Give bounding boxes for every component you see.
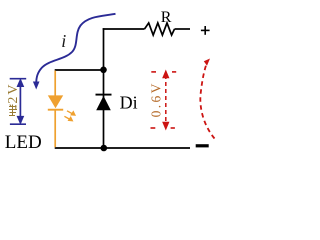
reverse-voltage curved arrow (red dashed) — [200, 59, 214, 139]
label approx 2V (rotated) — [6, 82, 21, 116]
label Di — [120, 93, 138, 113]
wire top horizontal to resistor — [103, 28, 145, 30]
current arrow i (blue S-curve) — [33, 14, 116, 90]
wire main vertical bus — [103, 28, 105, 148]
resistor R — [145, 23, 175, 35]
wire resistor to plus terminal — [175, 28, 191, 30]
label LED — [5, 132, 42, 153]
minus terminal — [196, 144, 209, 147]
plus terminal — [201, 26, 210, 35]
svg-text:Di: Di — [120, 93, 138, 113]
voltage annotation 0.6V (red dashed dimension arrow) — [151, 71, 177, 129]
node junction dot top — [100, 67, 107, 74]
voltage annotation arrow ~2V (blue double-headed) — [10, 79, 27, 125]
svg-text:0.6V: 0.6V — [149, 81, 164, 117]
svg-text:2V: 2V — [6, 82, 21, 103]
wire top-left horizontal (node A to LED branch) — [55, 69, 104, 71]
LED (orange light-emitting diode) — [48, 95, 63, 109]
kanji approx (hand strokes) — [9, 105, 17, 117]
svg-text:R: R — [161, 9, 172, 26]
LED light emission arrows — [64, 111, 75, 121]
node junction dot bottom — [101, 145, 108, 152]
wire bottom horizontal — [55, 147, 190, 149]
wire LED branch vertical (orange) — [54, 71, 56, 148]
svg-text:i: i — [61, 31, 66, 51]
diode Di (points up, cathode bar on top) — [96, 95, 112, 111]
label 0.6V (rotated) — [149, 81, 164, 117]
svg-text:LED: LED — [5, 132, 42, 153]
label R — [161, 9, 172, 26]
label i (current) — [61, 31, 66, 51]
